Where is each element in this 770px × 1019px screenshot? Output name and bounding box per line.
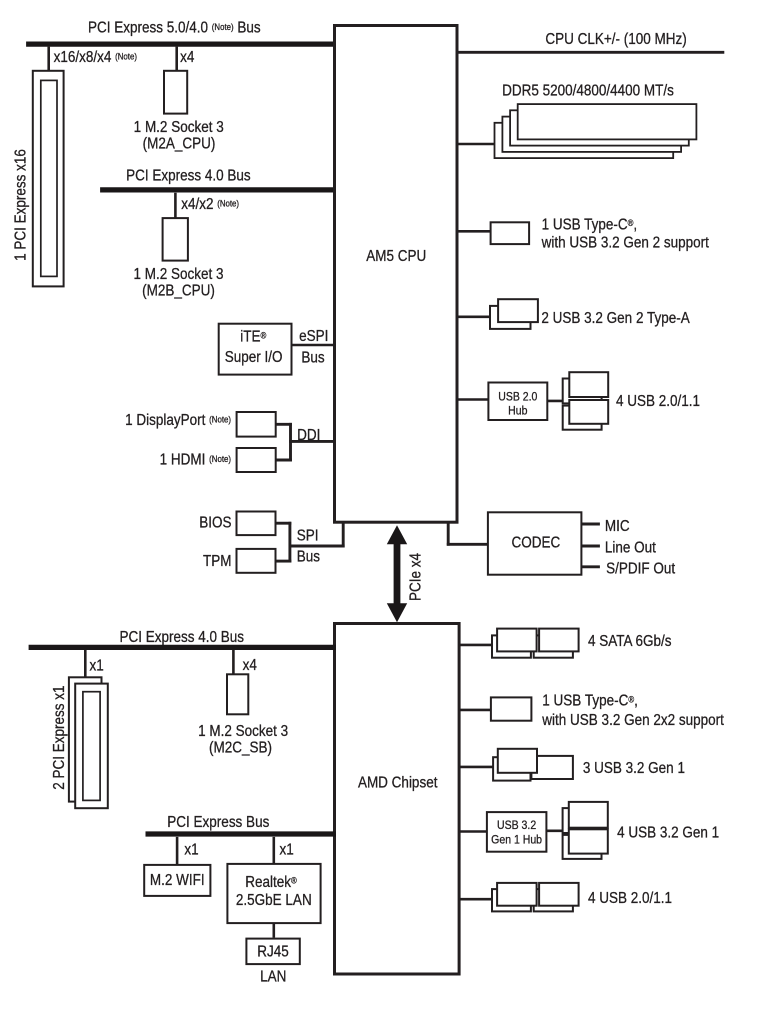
bus PCI Express 4.0 (chipset) bar [29, 645, 336, 650]
svg-text:SPI: SPI [297, 528, 319, 545]
BIOS box [237, 512, 276, 536]
DDR5 DIMM stack [495, 104, 697, 158]
svg-text:CPU CLK+/- (100 MHz): CPU CLK+/- (100 MHz) [545, 31, 686, 48]
svg-text:x4: x4 [243, 657, 257, 674]
svg-text:1 USB Type-C®,: 1 USB Type-C®, [542, 693, 638, 710]
svg-text:x1: x1 [90, 658, 104, 675]
label 1 USB Type-C with USB 3.2 Gen 2 support [541, 216, 709, 252]
wire S/PDIF Out [581, 565, 600, 568]
chipset box AMD [335, 624, 460, 975]
M.2 socket M2C_SB box [227, 674, 248, 714]
svg-text:1 USB Type-C®,: 1 USB Type-C®, [542, 216, 638, 233]
svg-text:AMD Chipset: AMD Chipset [358, 775, 438, 792]
M.2 socket M2B_CPU box [163, 218, 188, 261]
wire CPU to CODEC [447, 523, 488, 546]
USB Type-C port box (chipset) [491, 697, 532, 720]
svg-text:4 USB 2.0/1.1: 4 USB 2.0/1.1 [588, 890, 672, 907]
svg-text:Super I/O: Super I/O [225, 349, 283, 366]
svg-text:Hub: Hub [508, 405, 527, 418]
CPU box AM5 [335, 26, 458, 523]
svg-text:Bus: Bus [301, 350, 324, 367]
wire BIOS/TPM join to SPI bus [276, 522, 345, 563]
svg-text:with USB 3.2 Gen 2x2 support: with USB 3.2 Gen 2x2 support [541, 712, 723, 729]
label iTE Super I/O [225, 329, 283, 366]
svg-text:CODEC: CODEC [512, 535, 561, 552]
wire Line Out [581, 545, 600, 548]
wire DisplayPort/HDMI join to DDI [276, 423, 335, 462]
svg-text:PCI Express 4.0 Bus: PCI Express 4.0 Bus [120, 629, 245, 646]
M.2 WIFI box [144, 865, 210, 896]
svg-text:1 PCI Express x16: 1 PCI Express x16 [13, 149, 30, 261]
svg-text:BIOS: BIOS [199, 514, 231, 531]
HDMI box [237, 448, 276, 472]
wire chipset to USB 3.2 Gen 1 hub [460, 830, 487, 833]
USB 2.0 Hub box [488, 383, 547, 421]
label 1 M.2 Socket 3 (M2A_CPU) [134, 119, 224, 153]
svg-text:PCI Express 5.0/4.0 (Note) Bus: PCI Express 5.0/4.0 (Note) Bus [88, 20, 261, 37]
wire CPU to USB Type-C port [457, 230, 491, 233]
DisplayPort box [237, 412, 276, 437]
wire chipset to USB 2.0 ports [460, 898, 493, 901]
PCI Express x1 slots [69, 677, 108, 808]
svg-text:2.5GbE LAN: 2.5GbE LAN [236, 892, 312, 909]
iTE Super I/O box [219, 324, 292, 375]
svg-text:DDI: DDI [297, 427, 320, 444]
svg-text:Line Out: Line Out [605, 540, 656, 557]
svg-text:PCI Express Bus: PCI Express Bus [167, 814, 269, 831]
svg-text:Gen 1 Hub: Gen 1 Hub [491, 834, 542, 847]
label USB 2.0 Hub [498, 391, 537, 418]
wire bus to M.2 WIFI [176, 837, 179, 865]
svg-text:x1: x1 [280, 842, 294, 859]
wire bus to M2C socket [232, 650, 235, 675]
M.2 socket M2A_CPU box [164, 71, 187, 114]
svg-text:(M2B_CPU): (M2B_CPU) [142, 283, 215, 300]
svg-text:Bus: Bus [297, 548, 320, 565]
wire bus to Realtek LAN [272, 837, 275, 864]
svg-text:USB 3.2: USB 3.2 [497, 819, 536, 832]
wire bus to M2B socket [174, 193, 177, 218]
svg-text:4 SATA 6Gb/s: 4 SATA 6Gb/s [588, 633, 672, 650]
svg-text:(M2C_SB): (M2C_SB) [209, 739, 272, 756]
TPM box [237, 549, 276, 573]
svg-text:x16/x8/x4 (Note): x16/x8/x4 (Note) [54, 49, 137, 66]
svg-text:eSPI: eSPI [299, 328, 328, 345]
wire CPU to USB 3.2 Gen 2 Type-A ports [457, 315, 492, 318]
svg-text:1 M.2 Socket 3: 1 M.2 Socket 3 [198, 723, 288, 740]
wire eSPI bus [292, 344, 335, 347]
wire hub to USB 3.2 Gen 1 ports [546, 829, 566, 832]
USB 3.2 Gen 1 port boxes [493, 749, 573, 781]
svg-text:Realtek®: Realtek® [245, 874, 297, 891]
svg-text:TPM: TPM [203, 553, 232, 570]
svg-text:MIC: MIC [605, 518, 630, 535]
svg-text:1 M.2 Socket 3: 1 M.2 Socket 3 [133, 266, 223, 283]
svg-text:2 PCI Express x1: 2 PCI Express x1 [51, 685, 68, 789]
wire bus to M2A socket [175, 47, 178, 71]
wire CPU to DDR5 [457, 143, 496, 146]
PCI Express x16 slot [33, 71, 64, 287]
svg-text:USB 2.0: USB 2.0 [498, 391, 537, 404]
svg-text:S/PDIF Out: S/PDIF Out [606, 561, 675, 578]
label 1 USB Type-C with USB 3.2 Gen 2x2 support [541, 693, 723, 729]
svg-text:1 M.2 Socket 3: 1 M.2 Socket 3 [134, 119, 224, 136]
USB 3.2 Gen 2 Type-A port boxes [490, 299, 538, 329]
label USB 3.2 Gen 1 Hub [491, 819, 542, 846]
svg-text:LAN: LAN [260, 969, 286, 986]
svg-text:(M2A_CPU): (M2A_CPU) [143, 136, 216, 153]
Realtek 2.5GbE LAN box [227, 864, 320, 923]
wire bus to PCIe x16 slot [47, 47, 50, 71]
label 1 M.2 Socket 3 (M2B_CPU) [133, 266, 223, 300]
bus PCI Express 5.0/4.0 bar [26, 41, 336, 46]
label 1 M.2 Socket 3 (M2C_SB) [198, 723, 288, 757]
wire bus to PCI Express x1 slots [84, 650, 87, 678]
wire CPU to USB 2.0 hub [457, 398, 488, 401]
svg-text:x1: x1 [184, 842, 198, 859]
wire CPU CLK [457, 51, 724, 54]
svg-text:x4/x2 (Note): x4/x2 (Note) [181, 196, 239, 213]
svg-text:4 USB 2.0/1.1: 4 USB 2.0/1.1 [616, 393, 700, 410]
USB 2.0/1.1 port boxes [563, 372, 609, 430]
PCIe x4 arrow CPU to chipset [387, 525, 407, 622]
bus PCI Express 4.0 bar [100, 187, 336, 192]
CODEC box [488, 512, 582, 574]
svg-text:AM5 CPU: AM5 CPU [366, 248, 426, 265]
svg-text:DDR5 5200/4800/4400 MT/s: DDR5 5200/4800/4400 MT/s [502, 83, 674, 100]
svg-text:3 USB 3.2 Gen 1: 3 USB 3.2 Gen 1 [583, 760, 685, 777]
svg-text:1 HDMI (Note): 1 HDMI (Note) [160, 451, 231, 468]
svg-text:with USB 3.2 Gen 2 support: with USB 3.2 Gen 2 support [541, 235, 709, 252]
label eSPI Bus [299, 328, 328, 367]
bus PCI Express bar [146, 831, 337, 836]
USB 3.2 Gen 1 Hub box [487, 812, 547, 852]
svg-text:PCIe x4: PCIe x4 [408, 553, 425, 601]
svg-text:RJ45: RJ45 [257, 944, 289, 961]
wire Realtek to RJ45 [272, 923, 275, 938]
svg-text:1 DisplayPort (Note): 1 DisplayPort (Note) [125, 412, 231, 429]
svg-text:PCI Express 4.0 Bus: PCI Express 4.0 Bus [126, 168, 251, 185]
svg-text:iTE®: iTE® [240, 329, 267, 346]
label Realtek 2.5GbE LAN [236, 874, 312, 909]
wire chipset to SATA ports [460, 644, 493, 647]
wire chipset to USB 3.2 Gen 1 ports [460, 766, 494, 769]
RJ45 box [246, 939, 299, 965]
SATA port boxes [492, 629, 579, 658]
label SPI Bus [297, 528, 320, 566]
svg-text:2 USB 3.2 Gen 2 Type-A: 2 USB 3.2 Gen 2 Type-A [541, 310, 690, 327]
wire hub to USB 2.0 ports [547, 400, 566, 403]
USB Type-C port box [491, 222, 529, 244]
svg-text:x4: x4 [180, 49, 194, 66]
svg-text:M.2 WIFI: M.2 WIFI [150, 872, 205, 889]
USB 2.0/1.1 port boxes (chipset) [492, 883, 579, 911]
USB 3.2 Gen 1 hub port boxes [563, 802, 608, 859]
svg-text:4 USB 3.2 Gen 1: 4 USB 3.2 Gen 1 [617, 825, 719, 842]
wire MIC [581, 523, 600, 526]
wire chipset to USB Type-C port [460, 709, 491, 712]
